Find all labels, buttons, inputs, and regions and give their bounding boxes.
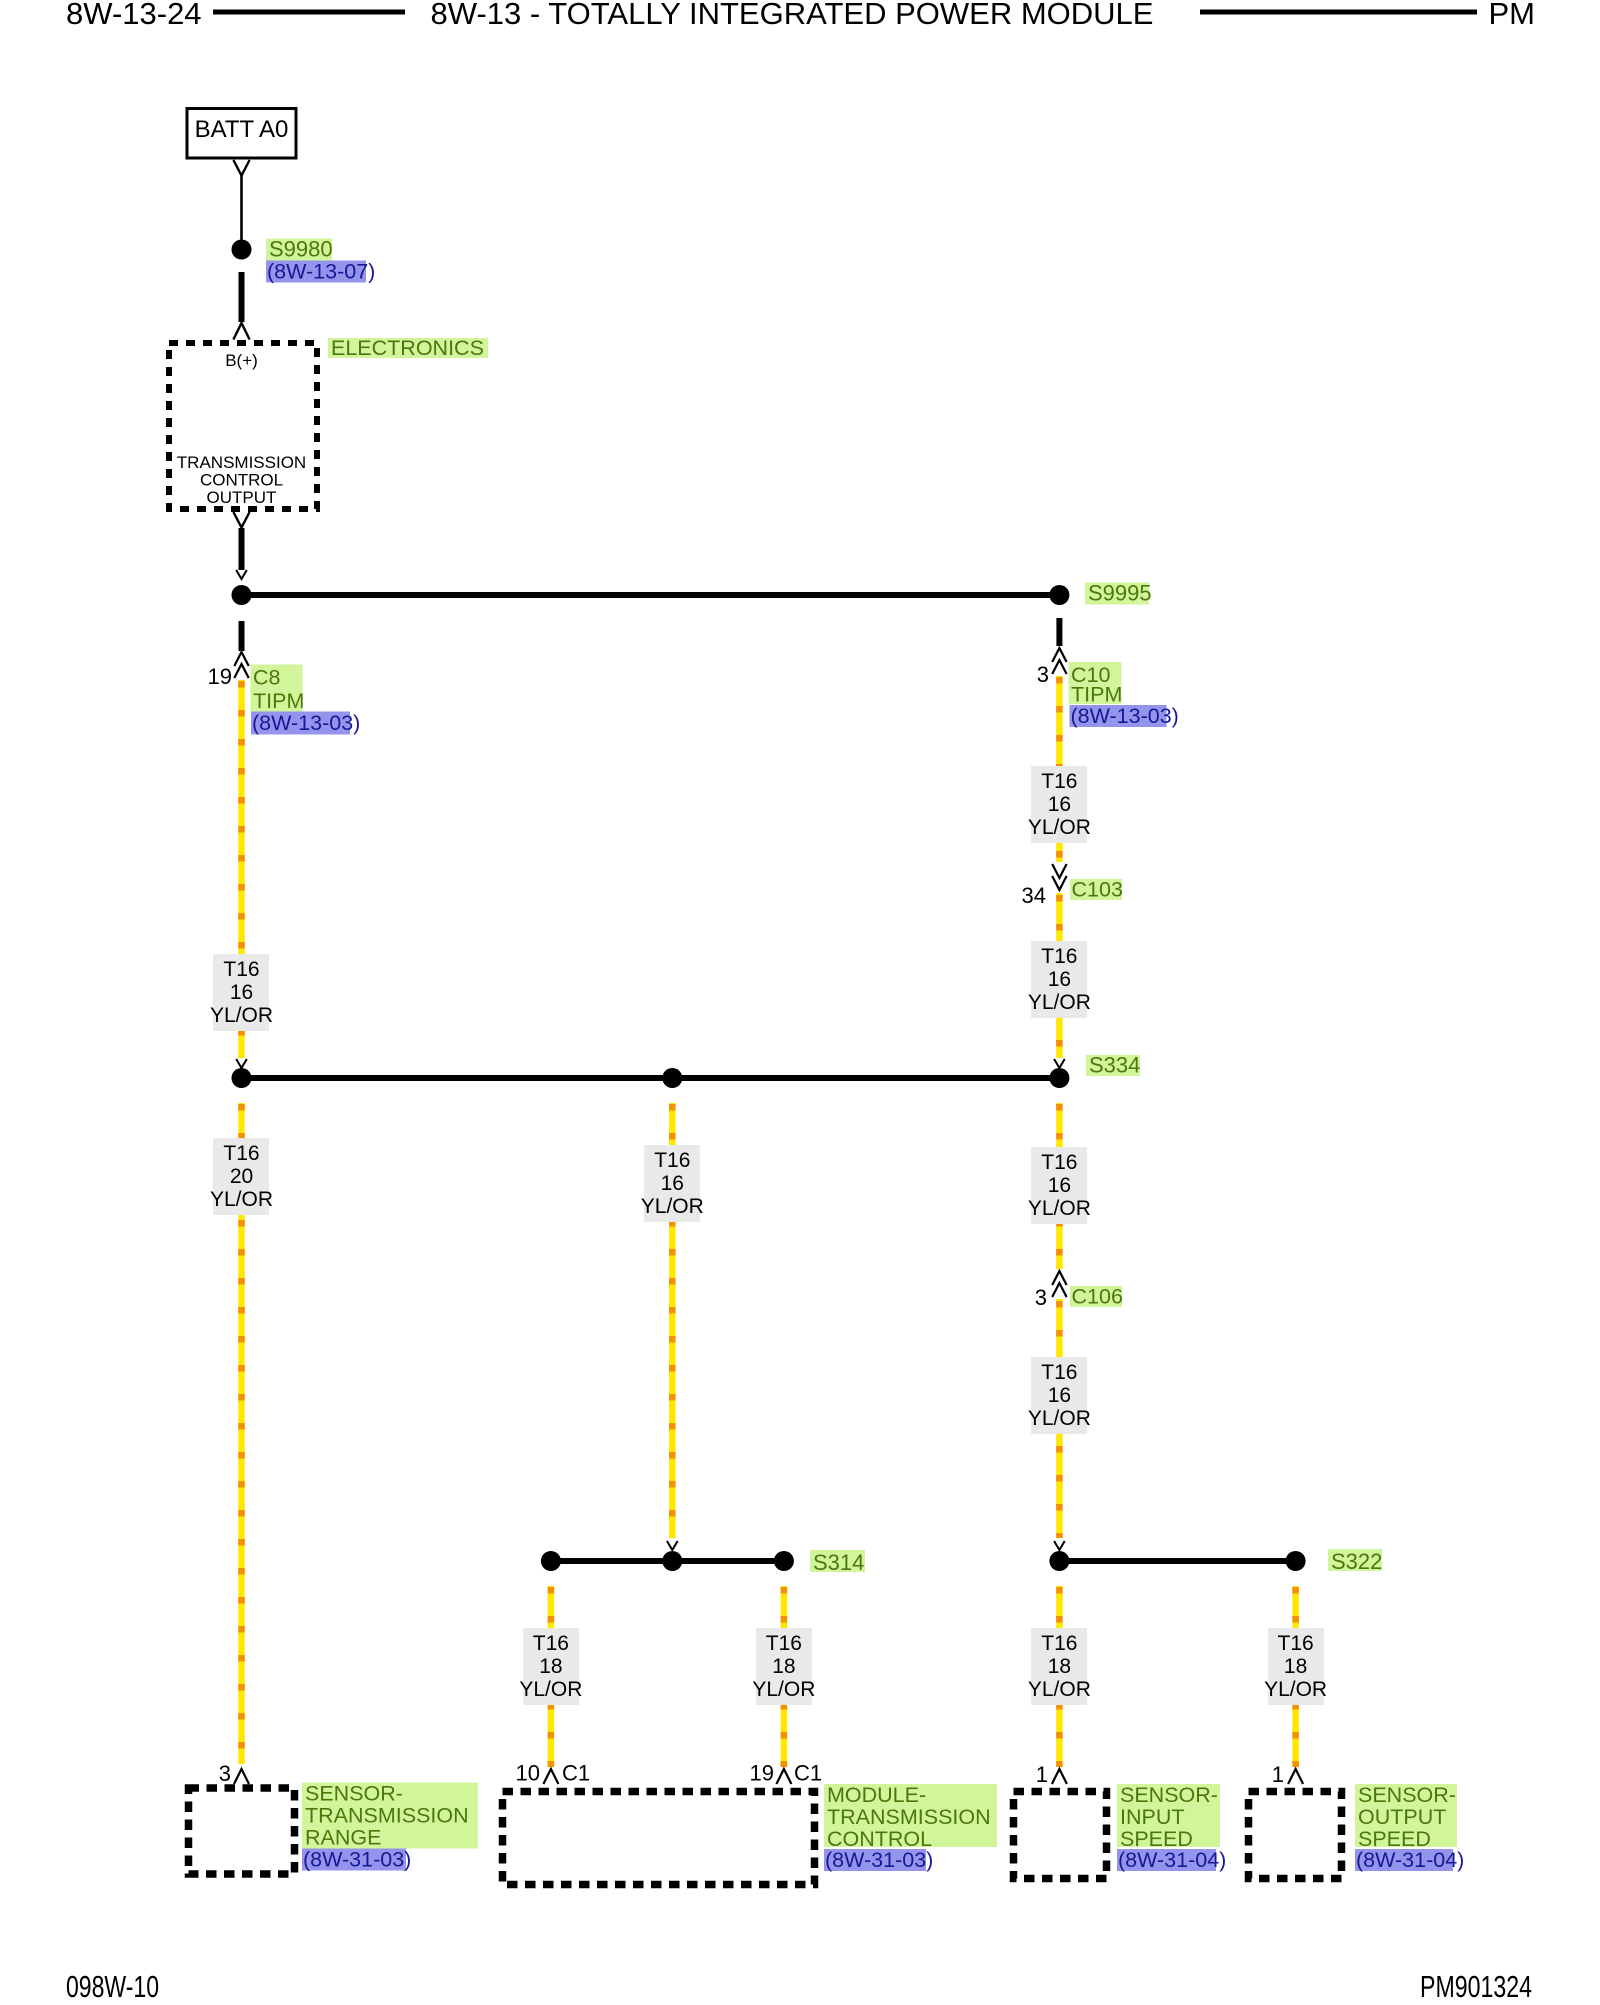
- svg-text:OUTPUT: OUTPUT: [207, 488, 277, 507]
- module-transmission control box (dashed): [503, 1792, 815, 1885]
- svg-text:C1: C1: [562, 1761, 590, 1786]
- svg-text:T16: T16: [533, 1632, 569, 1655]
- wire S334 left to sensor-transmission range (YL/OR): [238, 1103, 245, 1764]
- svg-text:TRANSMISSION: TRANSMISSION: [177, 453, 306, 472]
- wire C103 to S334 (YL/OR): [1056, 893, 1063, 1058]
- svg-text:(8W-31-04): (8W-31-04): [1356, 1848, 1464, 1872]
- sensor-output speed box (dashed): [1249, 1792, 1342, 1879]
- svg-text:16: 16: [1048, 968, 1071, 991]
- in-line connector C8 (chevrons): [234, 652, 248, 666]
- wire gauge label T16 18 YL/OR (S322 right): [1264, 1628, 1327, 1705]
- bus S322: [1059, 1558, 1295, 1564]
- wire TIPM to bus S9995: [239, 528, 245, 570]
- wire S322 right to sensor-output speed (YL/OR): [1292, 1586, 1299, 1767]
- svg-text:T16: T16: [1041, 945, 1077, 968]
- label ELECTRONICS: [328, 338, 488, 358]
- svg-text:20: 20: [230, 1165, 253, 1188]
- svg-text:3: 3: [1037, 662, 1049, 687]
- splice dot S322 right: [1286, 1551, 1306, 1571]
- bus S9995: [241, 592, 1059, 598]
- svg-text:34: 34: [1022, 883, 1046, 908]
- svg-text:RANGE: RANGE: [305, 1826, 381, 1850]
- svg-text:CONTROL: CONTROL: [200, 471, 283, 490]
- svg-text:INPUT: INPUT: [1120, 1805, 1185, 1829]
- svg-text:C8: C8: [253, 666, 281, 690]
- svg-text:098W-10: 098W-10: [66, 1970, 159, 2000]
- svg-text:TRANSMISSION: TRANSMISSION: [827, 1805, 991, 1829]
- terminal chevron into sensor-input speed pin 1: [1052, 1769, 1067, 1784]
- svg-text:B(+): B(+): [225, 351, 258, 370]
- svg-text:BATT A0: BATT A0: [195, 116, 289, 143]
- svg-text:YL/OR: YL/OR: [1028, 1407, 1091, 1430]
- splice dot S334 right: [1049, 1068, 1069, 1088]
- label SENSOR-OUTPUT SPEED: [1355, 1784, 1457, 1847]
- svg-text:TIPM: TIPM: [1071, 683, 1122, 707]
- svg-text:MODULE-: MODULE-: [827, 1783, 926, 1807]
- bus S314: [551, 1558, 784, 1564]
- label C106: [1070, 1286, 1122, 1307]
- svg-text:(8W-31-03): (8W-31-03): [825, 1848, 933, 1872]
- label (8W-31-04) input: [1117, 1849, 1216, 1871]
- label S322: [1328, 1549, 1382, 1571]
- in-line connector C10 (chevrons): [1052, 648, 1066, 662]
- svg-text:ELECTRONICS: ELECTRONICS: [331, 336, 484, 360]
- sensor-transmission range box (dashed): [189, 1788, 295, 1874]
- svg-text:SENSOR-: SENSOR-: [1120, 1783, 1218, 1807]
- wire S334 right to C106 (YL/OR): [1056, 1103, 1063, 1269]
- terminal arrow into splice S322: [1054, 1541, 1065, 1550]
- svg-text:T16: T16: [1041, 770, 1077, 793]
- svg-text:YL/OR: YL/OR: [641, 1195, 704, 1218]
- in-line connector C106 (chevrons up): [1052, 1271, 1066, 1285]
- svg-text:(8W-13-03): (8W-13-03): [1071, 704, 1179, 728]
- svg-text:16: 16: [1048, 1174, 1071, 1197]
- svg-text:19: 19: [750, 1761, 774, 1786]
- label S9980: [266, 239, 332, 261]
- svg-text:YL/OR: YL/OR: [1028, 991, 1091, 1014]
- svg-text:10: 10: [516, 1761, 540, 1786]
- svg-text:18: 18: [772, 1655, 795, 1678]
- svg-text:1: 1: [1272, 1762, 1284, 1787]
- wire C10 to C103 (YL/OR): [1056, 676, 1063, 862]
- wire S9980 to TIPM B(+): [239, 272, 245, 322]
- terminal arrow into splice S314: [667, 1541, 678, 1550]
- svg-text:16: 16: [661, 1172, 684, 1195]
- wire gauge label T16 16 YL/OR (right above S334): [1028, 941, 1091, 1018]
- splice dot S314 middle: [662, 1551, 682, 1571]
- label (8W-13-03) at C10: [1070, 705, 1167, 727]
- wire BATT A0 to splice S9980: [240, 176, 243, 241]
- splice dot S322 left: [1049, 1551, 1069, 1571]
- svg-text:3: 3: [219, 1761, 231, 1786]
- svg-text:S9980: S9980: [269, 237, 333, 262]
- in-line connector C103 (chevrons down): [1052, 864, 1066, 878]
- terminal chevron into sensor-transmission range pin 3: [234, 1769, 249, 1784]
- label MODULE-TRANSMISSION CONTROL: [824, 1784, 997, 1847]
- svg-text:C106: C106: [1072, 1285, 1123, 1309]
- svg-text:YL/OR: YL/OR: [519, 1678, 582, 1701]
- wire gauge label T16 18 YL/OR (S314 left): [519, 1628, 582, 1705]
- splice dot S314 left: [541, 1551, 561, 1571]
- svg-text:PM: PM: [1489, 0, 1536, 31]
- label S314: [810, 1550, 865, 1572]
- svg-text:16: 16: [230, 981, 253, 1004]
- svg-text:SENSOR-: SENSOR-: [305, 1782, 403, 1806]
- splice dot S334 left: [232, 1068, 252, 1088]
- label (8W-31-03) left: [302, 1849, 406, 1871]
- label C10 TIPM: [1069, 662, 1122, 704]
- splice dot S334 middle: [662, 1068, 682, 1088]
- svg-text:(8W-31-03): (8W-31-03): [303, 1848, 411, 1872]
- wire S334 middle to S314 (YL/OR): [669, 1103, 676, 1538]
- bus S334: [241, 1075, 1059, 1081]
- svg-text:T16: T16: [223, 1142, 259, 1165]
- svg-text:YL/OR: YL/OR: [210, 1188, 273, 1211]
- svg-text:8W-13-24: 8W-13-24: [66, 0, 202, 31]
- terminal arrow out of BATT A0: [233, 160, 249, 176]
- svg-text:T16: T16: [1041, 1151, 1077, 1174]
- battery feed box BATT A0: [187, 109, 296, 159]
- svg-text:T16: T16: [223, 958, 259, 981]
- wire S314 left to module C1 pin10 (YL/OR): [548, 1586, 555, 1767]
- svg-text:T16: T16: [766, 1632, 802, 1655]
- svg-text:19: 19: [208, 664, 232, 689]
- svg-text:YL/OR: YL/OR: [1028, 816, 1091, 839]
- splice S9980: [232, 240, 252, 260]
- svg-text:SENSOR-: SENSOR-: [1358, 1783, 1456, 1807]
- label S334: [1086, 1055, 1140, 1076]
- label (8W-31-03) module: [824, 1849, 926, 1871]
- svg-text:1: 1: [1036, 1762, 1048, 1787]
- label S9995: [1085, 583, 1149, 605]
- wire S9995 to connector C8: [239, 621, 245, 651]
- splice dot S9995 left: [232, 585, 252, 605]
- svg-text:S314: S314: [813, 1550, 864, 1575]
- svg-text:TRANSMISSION: TRANSMISSION: [305, 1804, 469, 1828]
- wire gauge label T16 18 YL/OR (S314 right): [752, 1628, 815, 1705]
- svg-text:C1: C1: [794, 1761, 822, 1786]
- svg-text:16: 16: [1048, 1384, 1071, 1407]
- svg-text:YL/OR: YL/OR: [1264, 1678, 1327, 1701]
- wire C106 to S322 (YL/OR): [1056, 1299, 1063, 1538]
- svg-text:16: 16: [1048, 793, 1071, 816]
- wire gauge label T16 16 YL/OR (right below C10): [1028, 766, 1091, 843]
- wire gauge label T16 16 YL/OR (right below C106): [1028, 1357, 1091, 1434]
- terminal chevron into module pin 10: [543, 1769, 558, 1784]
- terminal arrow into TIPM: [233, 323, 249, 340]
- label SENSOR-TRANSMISSION RANGE: [302, 1783, 478, 1849]
- wire gauge label T16 18 YL/OR (S322 left): [1028, 1628, 1091, 1705]
- label (8W-31-04) output: [1355, 1849, 1453, 1871]
- svg-text:C103: C103: [1072, 878, 1123, 902]
- svg-text:(8W-13-03): (8W-13-03): [252, 711, 360, 735]
- svg-text:S322: S322: [1331, 1549, 1382, 1574]
- svg-text:18: 18: [1284, 1655, 1307, 1678]
- svg-text:18: 18: [539, 1655, 562, 1678]
- terminal arrow into splice S334 right: [1054, 1059, 1065, 1068]
- svg-text:S9995: S9995: [1088, 581, 1152, 606]
- svg-text:OUTPUT: OUTPUT: [1358, 1805, 1446, 1829]
- sensor-input speed box (dashed): [1014, 1792, 1107, 1879]
- label C103: [1070, 879, 1122, 900]
- splice dot S314 right: [774, 1551, 794, 1571]
- svg-text:(8W-31-04): (8W-31-04): [1118, 1848, 1226, 1872]
- svg-text:3: 3: [1035, 1285, 1047, 1310]
- svg-text:YL/OR: YL/OR: [1028, 1197, 1091, 1220]
- svg-text:TIPM: TIPM: [253, 689, 304, 713]
- wire S322 left to sensor-input speed (YL/OR): [1056, 1586, 1063, 1767]
- header rule left: [213, 10, 405, 15]
- svg-text:YL/OR: YL/OR: [210, 1004, 273, 1027]
- terminal chevron into sensor-output speed pin 1: [1288, 1769, 1303, 1784]
- label C8 TIPM: [251, 665, 303, 712]
- terminal chevron into module pin 19: [776, 1769, 791, 1784]
- label (8W-13-07): [266, 261, 366, 283]
- svg-text:18: 18: [1048, 1655, 1071, 1678]
- svg-text:YL/OR: YL/OR: [1028, 1678, 1091, 1701]
- svg-text:T16: T16: [654, 1149, 690, 1172]
- svg-text:S334: S334: [1089, 1053, 1140, 1078]
- label SENSOR-INPUT SPEED: [1117, 1784, 1220, 1847]
- terminal arrow out of TIPM: [233, 512, 249, 528]
- wire gauge label T16 16 YL/OR (middle): [641, 1145, 704, 1222]
- terminal arrow into splice S334 left: [236, 1059, 247, 1068]
- TIPM module box (dashed): [169, 343, 317, 509]
- svg-text:T16: T16: [1041, 1632, 1077, 1655]
- wire gauge label T16 20 YL/OR (left below S334): [210, 1138, 273, 1215]
- svg-text:YL/OR: YL/OR: [752, 1678, 815, 1701]
- splice dot S9995 right: [1049, 585, 1069, 605]
- wire S9995 to connector C10 (right column): [1056, 618, 1062, 646]
- svg-text:PM901324: PM901324: [1420, 1970, 1532, 2000]
- wire S314 right to module C1 pin19 (YL/OR): [781, 1586, 788, 1767]
- header rule right: [1200, 10, 1477, 15]
- svg-text:T16: T16: [1041, 1361, 1077, 1384]
- wire C8 to S334 (YL/OR): [238, 680, 245, 1058]
- svg-text:(8W-13-07): (8W-13-07): [267, 260, 375, 284]
- label (8W-13-03) at C8: [251, 712, 350, 735]
- terminal arrow into splice S9995: [236, 570, 247, 579]
- wire gauge label T16 16 YL/OR (left above S334): [210, 954, 273, 1031]
- wire gauge label T16 16 YL/OR (right below S334): [1028, 1147, 1091, 1224]
- svg-text:T16: T16: [1278, 1632, 1314, 1655]
- svg-text:8W-13 - TOTALLY INTEGRATED POW: 8W-13 - TOTALLY INTEGRATED POWER MODULE: [431, 0, 1154, 31]
